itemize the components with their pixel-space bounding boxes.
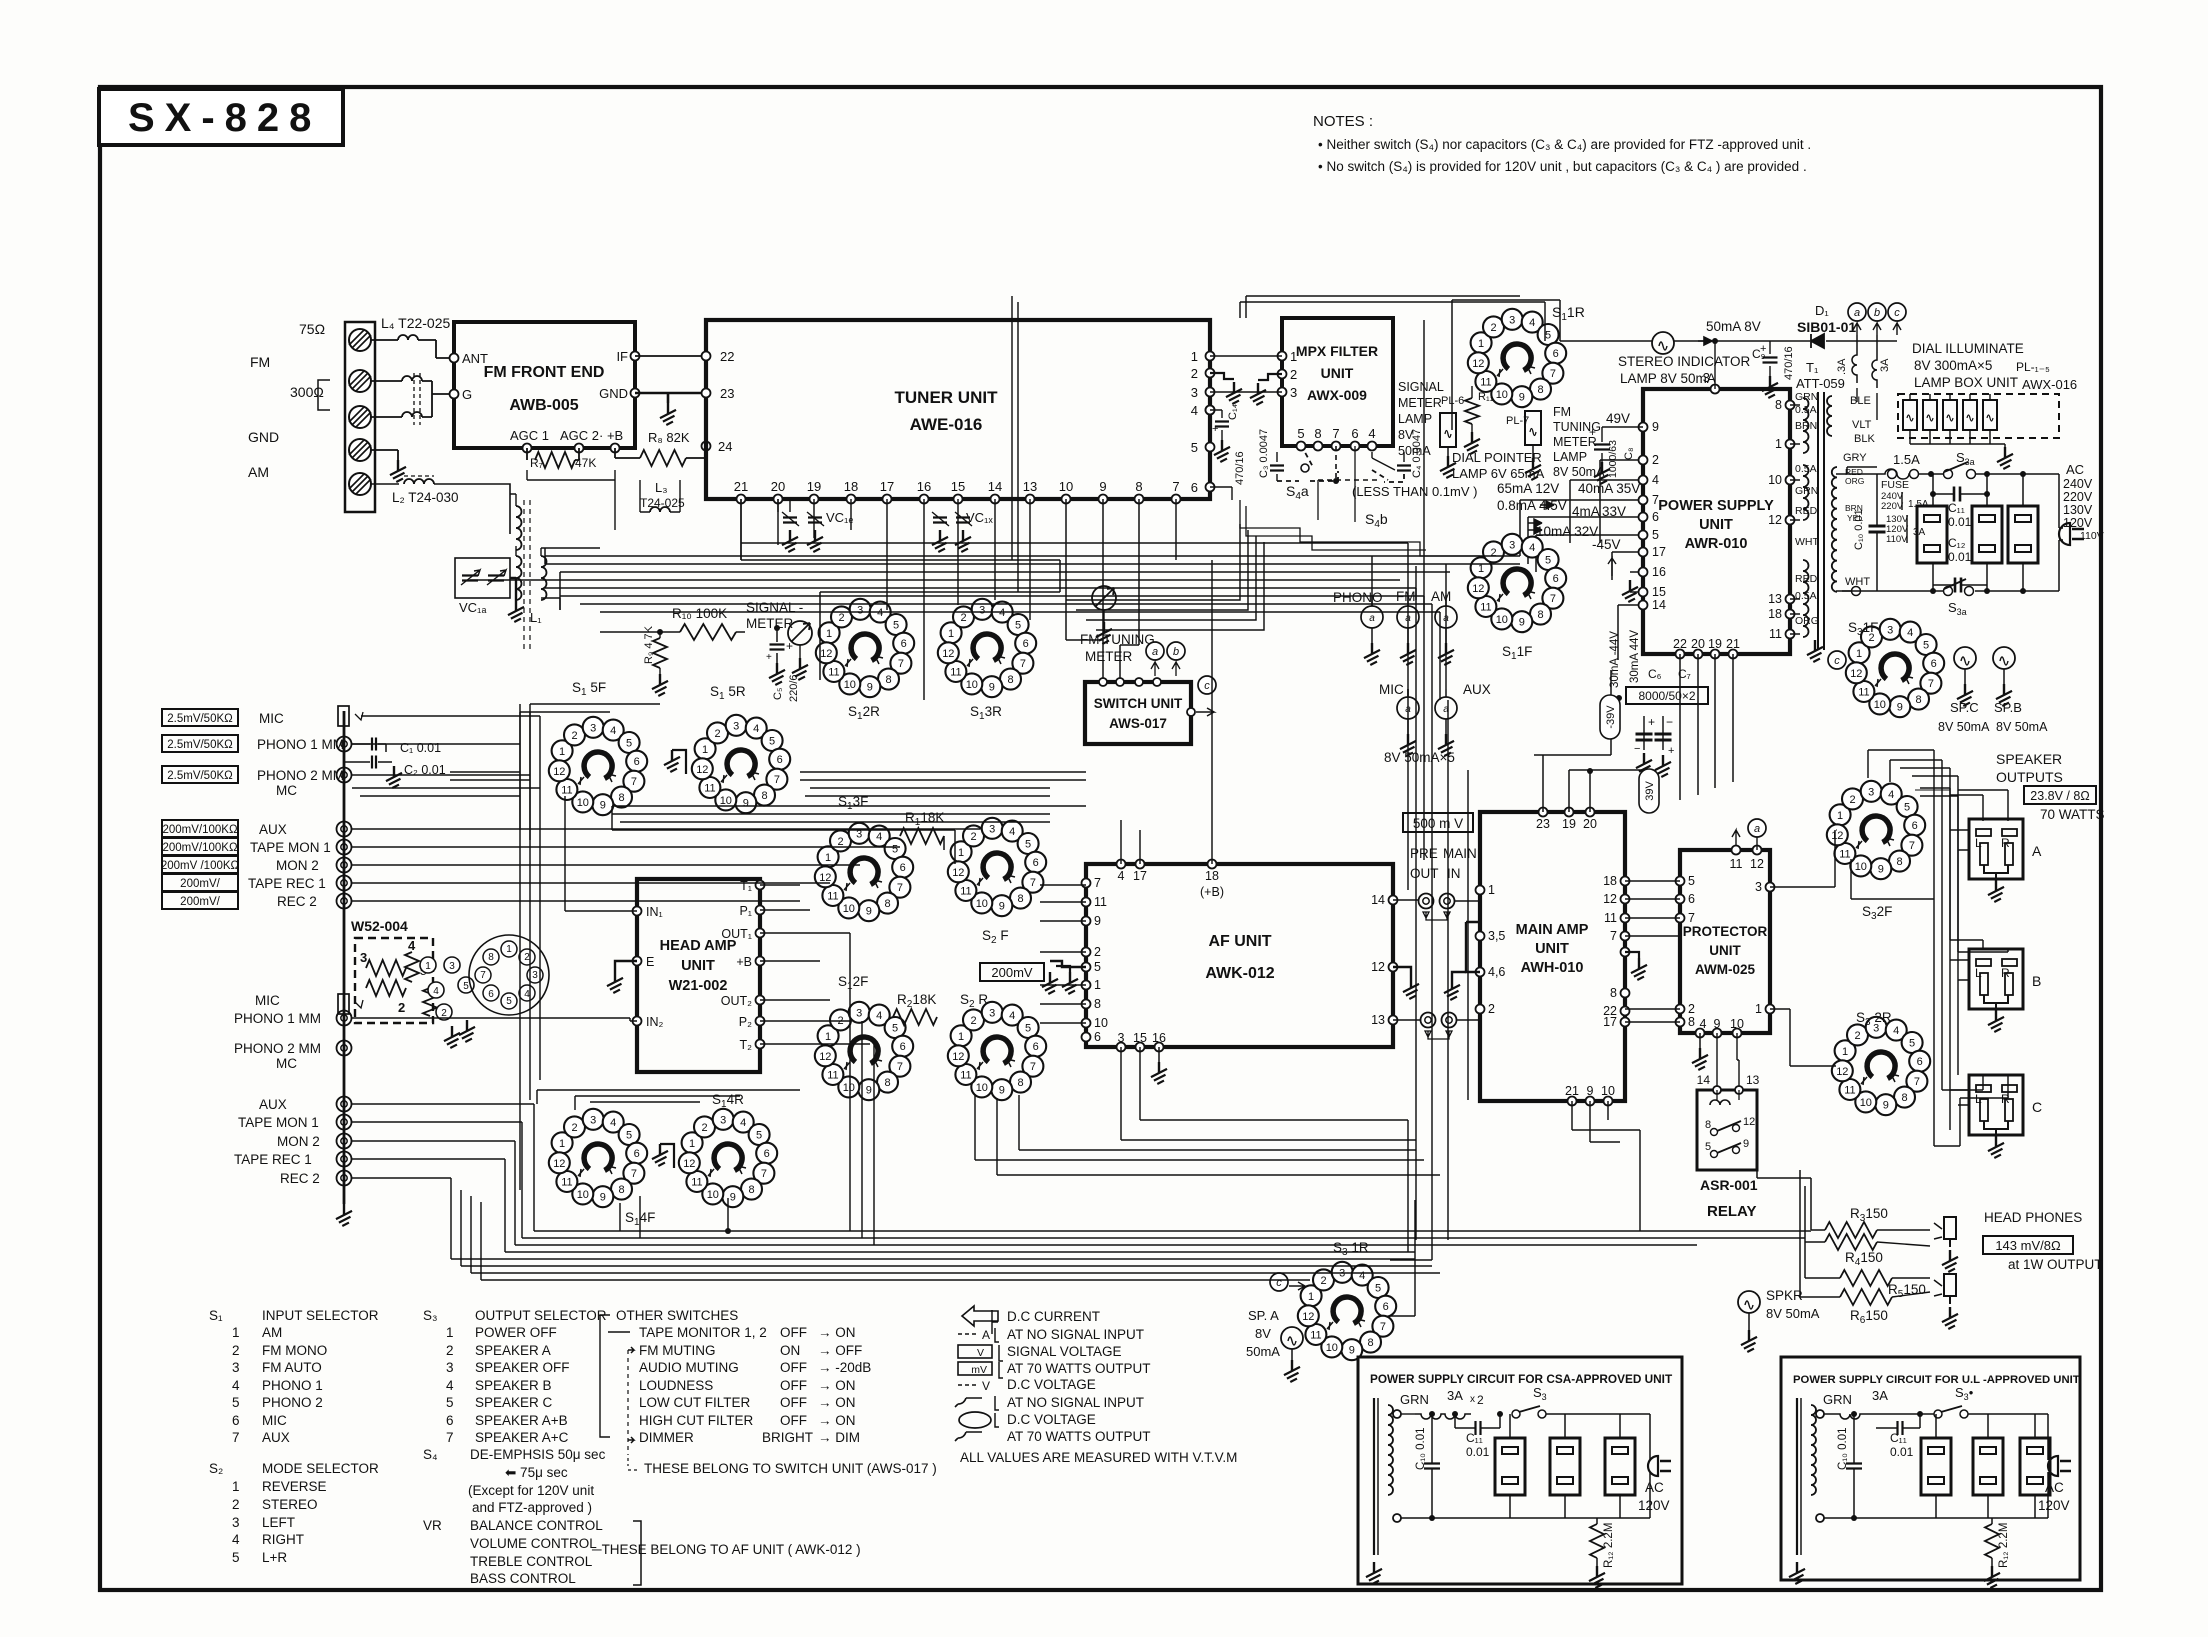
svg-text:SPEAKER C: SPEAKER C [475,1395,553,1410]
main amp pin 22 [1621,1007,1630,1016]
rotary switch S1 3R [938,599,1036,697]
antenna terminal screw [349,406,371,428]
MPX pin 3 [1278,388,1287,397]
svg-text:POWER SUPPLY CIRCUIT FOR CS: POWER SUPPLY CIRCUIT FOR CSA-APPROVED UN… [1370,1372,1673,1386]
svg-text:UNIT: UNIT [1699,517,1733,533]
svg-text:REVERSE: REVERSE [262,1479,327,1494]
svg-text:LAMP 6V 65mA: LAMP 6V 65mA [1452,466,1545,481]
svg-text:S₂: S₂ [209,1461,223,1476]
wire S1 1R box [1452,300,1560,430]
svg-text:AUX: AUX [262,1430,290,1445]
wire staircase under MPX [1066,524,1240,600]
input level box TAPE REC 1 [162,874,238,891]
input level box PHONO 1 MM [162,735,238,752]
svg-text:THESE BELONG TO SWITCH UNIT: THESE BELONG TO SWITCH UNIT (AWS-017 ) [644,1461,937,1476]
ac rail bottom [1836,590,2059,592]
svg-text:a: a [1754,823,1760,835]
svg-text:18: 18 [1205,869,1219,883]
svg-text:24: 24 [718,439,732,454]
wires protector to relay [1717,1033,1739,1086]
AF pin 17 [1136,860,1145,869]
legend icon boxed mV [958,1362,992,1375]
svg-text:AT NO SIGNAL INPUT: AT NO SIGNAL INPUT [1007,1395,1144,1410]
pre main jack [1442,1013,1457,1028]
AF pin 5 [1082,963,1091,972]
svg-text:c: c [1276,1277,1282,1289]
phono jack [337,1011,352,1026]
svg-text:11: 11 [1769,627,1782,641]
svg-text:b: b [1173,646,1179,658]
svg-text:SPEAKER: SPEAKER [1996,751,2062,767]
svg-text:18: 18 [1768,607,1782,621]
protector pin 1 [1766,1005,1775,1014]
svg-text:D.C VOLTAGE: D.C VOLTAGE [1007,1412,1096,1427]
wire vertical feeds AF top [1121,560,1212,864]
head amp pin E [633,957,642,966]
svg-text:110V: 110V [1886,534,1908,545]
wire head amp to switches [760,885,870,1044]
svg-text:-39V: -39V [1605,705,1617,729]
svg-text:3A: 3A [1879,358,1891,372]
wire AF14 to jacks [1393,900,1480,1020]
power supply unit AWR-010 [1643,389,1790,654]
pre main jack [1421,1013,1436,1028]
legend icon big arrow [962,1306,998,1326]
psu pin 1 [1786,440,1795,449]
terminal b [1868,303,1886,321]
svg-text:GRN: GRN [1795,391,1818,403]
main amp pin 11 [1621,914,1630,923]
svg-text:23: 23 [720,386,734,401]
phono jack [337,1041,352,1056]
svg-text:b: b [1874,307,1880,319]
svg-text:R₁₀ 100K: R₁₀ 100K [672,606,727,621]
svg-text:STEREO: STEREO [262,1497,318,1512]
lamp box unit dashed [1898,394,2059,438]
protector pin 8 [1676,1018,1685,1027]
svg-text:S₃: S₃ [423,1308,438,1323]
AF pin 13 [1389,1016,1398,1025]
svg-text:7: 7 [1610,929,1617,943]
svg-text:AF UNIT: AF UNIT [1208,933,1271,950]
relay ASR-001 [1697,1090,1757,1170]
svg-text:MC: MC [276,783,297,798]
svg-text:AUX: AUX [1463,682,1491,697]
svg-text:15: 15 [951,479,965,494]
svg-text:TAPE REC 1: TAPE REC 1 [248,876,326,891]
svg-text:.3A: .3A [1836,358,1848,375]
wire tuner pin3 to MPX pin3 [1210,391,1282,393]
pre main jack [1419,894,1434,909]
connector W52-004 dashed [355,938,433,1023]
svg-text:AGC 2· +B: AGC 2· +B [560,428,623,443]
svg-text:6: 6 [1688,892,1695,906]
svg-text:L₂ T24-030: L₂ T24-030 [392,490,459,505]
ground S1 4R [660,1144,674,1168]
terminal a [1848,303,1866,321]
MPX pin 1 [1278,352,1287,361]
phono jack [337,1152,352,1167]
svg-text:7: 7 [232,1430,240,1445]
svg-text:c: c [1834,655,1840,667]
wire tuner pin6 to staircase [1210,487,1232,500]
svg-text:200mV/100KΩ: 200mV/100KΩ [162,842,237,854]
svg-text:0.8mA 4.5V: 0.8mA 4.5V [1497,498,1567,513]
svg-text:AM: AM [248,464,269,480]
svg-text:C₈: C₈ [1623,447,1635,460]
svg-text:9: 9 [1094,914,1101,928]
round connector 8pin [469,935,549,1015]
svg-text:MODE SELECTOR: MODE SELECTOR [262,1461,379,1476]
svg-text:W21-002: W21-002 [669,978,728,994]
svg-text:RED: RED [1795,573,1818,585]
svg-text:a: a [1854,307,1860,319]
svg-text:4: 4 [232,1378,240,1393]
power supply circuit UL box [1781,1357,2080,1580]
svg-text:LAMP 8V 50mA: LAMP 8V 50mA [1620,371,1716,386]
svg-text:at 1W OUTPUT: at 1W OUTPUT [2008,1257,2103,1272]
protector unit AWM-025 [1680,850,1770,1033]
svg-text:a: a [1369,613,1375,624]
wires relay to resistors [1757,1170,1811,1297]
wires main amp to protector [1625,881,1680,1022]
svg-text:0.5A: 0.5A [1795,463,1817,475]
svg-text:22: 22 [1673,637,1687,651]
svg-text:1: 1 [1488,883,1495,897]
svg-text:200mV /100KΩ: 200mV /100KΩ [161,860,240,872]
svg-text:FM: FM [1553,405,1571,419]
legend icon boxed V [958,1345,992,1358]
svg-text:3: 3 [232,1360,240,1375]
svg-text:2: 2 [1191,366,1198,381]
svg-text:16: 16 [1652,565,1666,579]
CSA plugs [1495,1438,1525,1495]
wire AF bottom feeds [1121,1047,1416,1252]
svg-text:AM: AM [262,1325,282,1340]
svg-text:(LESS THAN 0.1mV ): (LESS THAN 0.1mV ) [1352,484,1477,499]
wire head amp outputs down [850,933,874,1245]
svg-text:C: C [2032,1099,2042,1115]
svg-text:4: 4 [232,1532,240,1547]
svg-text:C₁₂: C₁₂ [1948,536,1966,550]
phono jack [337,840,352,855]
svg-text:IN: IN [1447,866,1461,881]
svg-text:16: 16 [917,479,931,494]
svg-text:BLK: BLK [1854,433,1875,445]
svg-text:FM MONO: FM MONO [262,1343,327,1358]
svg-text:13: 13 [1746,1073,1760,1087]
svg-text:8: 8 [1314,426,1321,441]
svg-text:14: 14 [1697,1073,1711,1087]
legend icon curve 1 [955,1398,982,1407]
svg-text:4: 4 [408,938,416,953]
svg-text:9: 9 [1743,1138,1749,1150]
svg-text:2: 2 [232,1343,240,1358]
svg-text:2: 2 [446,1343,454,1358]
AF pin 10 [1082,1019,1091,1028]
wire bus under tuner [470,556,1520,580]
svg-text:22: 22 [720,349,734,364]
input level box MON 2 [162,856,238,873]
svg-text:T₂: T₂ [740,1038,753,1052]
svg-text:3: 3 [1755,880,1762,894]
svg-text:UNIT: UNIT [681,958,715,974]
main amp pin 7 [1621,932,1630,941]
svg-text:L₁: L₁ [530,610,542,625]
svg-text:AUX: AUX [259,1097,287,1112]
wire vertical bundle right of AF [1408,320,1468,1240]
svg-text:−: − [1634,743,1640,755]
svg-text:OFF: OFF [780,1395,807,1410]
legend icon curve 2 [955,1432,982,1441]
switch unit top pin [1116,678,1124,686]
svg-text:• No switch (S₄) is provid: • No switch (S₄) is provided for 120V un… [1318,159,1807,174]
svg-text:470/16: 470/16 [1234,451,1246,485]
svg-text:(+B): (+B) [1200,885,1224,899]
wire speaker feeds [1868,750,1958,1146]
svg-text:LOUDNESS: LOUDNESS [639,1378,713,1393]
svg-text:120V: 120V [2063,516,2093,530]
mic jack 2 [338,994,349,1014]
svg-text:MPX FILTER: MPX FILTER [1296,343,1378,359]
svg-text:0.5A: 0.5A [1795,590,1817,602]
svg-text:13: 13 [1023,479,1037,494]
svg-text:10: 10 [1730,1017,1744,1031]
input jack [1397,697,1419,719]
capacitor C14 470/16 [1206,406,1215,415]
ground head amp E [615,961,637,971]
ground VC1a [510,578,516,600]
svg-text:8V: 8V [1398,428,1414,442]
wire staircase S4b [1240,500,1480,556]
svg-text:2: 2 [232,1497,240,1512]
lamp box wires [1910,394,1990,400]
svg-text:E: E [646,955,654,969]
input level box TAPE MON 1 [162,838,238,855]
svg-text:NOTES :: NOTES : [1313,113,1373,130]
svg-text:BALANCE CONTROL: BALANCE CONTROL [470,1518,603,1533]
svg-text:S₁: S₁ [209,1308,223,1323]
svg-text:AWB-005: AWB-005 [509,397,578,414]
pre main jack [1440,894,1455,909]
svg-text:c: c [1204,680,1210,692]
legend icon dashed V [958,1384,978,1386]
headphone jack 1 [1934,1217,1956,1247]
svg-text:VC₁ₐ: VC₁ₐ [459,600,486,615]
MPX filter unit AWX-009 [1282,318,1393,446]
wire relay to S3 1R bundle [1390,1200,1432,1316]
svg-text:OUTPUT SELECTOR: OUTPUT SELECTOR [475,1308,607,1323]
svg-text:OFF: OFF [780,1325,807,1340]
svg-text:mV: mV [971,1364,987,1376]
svg-text:AWK-012: AWK-012 [1205,965,1274,982]
AF pin 14 [1389,896,1398,905]
wire stereo line to psu pin3 [1714,341,1716,389]
MPX pin 4 [1368,442,1377,451]
svg-text:14: 14 [1371,893,1385,907]
MPX pin 6 [1351,442,1360,451]
AF pin 8 [1082,1000,1091,1009]
svg-text:FUSE: FUSE [1881,479,1909,491]
svg-text:200mV/: 200mV/ [180,896,220,908]
svg-text:TUNER UNIT: TUNER UNIT [895,388,999,407]
svg-text:POWER SUPPLY: POWER SUPPLY [1658,498,1774,514]
svg-text:A: A [982,1328,990,1342]
svg-text:+: + [786,639,793,653]
svg-text:C₃ 0.0047: C₃ 0.0047 [1258,429,1270,478]
phono jack [337,822,352,837]
AF pin 6 [1082,1033,1091,1042]
svg-text:6: 6 [488,989,494,1000]
tuner pin 21 [737,495,746,504]
svg-text:0.01: 0.01 [1948,550,1972,564]
svg-text:21: 21 [734,479,748,494]
svg-text:SP.C: SP.C [1950,700,1979,715]
svg-text:5: 5 [1297,426,1304,441]
wire S2R bottom drops [975,1095,1440,1175]
svg-text:V: V [977,1347,984,1359]
rotary switch S1 2R [816,599,914,697]
arrow -44V [1608,558,1616,576]
bracket VR [633,1521,641,1585]
svg-text:POWER OFF: POWER OFF [475,1325,557,1340]
terminal a small [1146,642,1164,660]
input jack [1361,606,1383,628]
svg-text:SX-828: SX-828 [128,96,321,140]
wire L1 [510,494,600,610]
svg-text:5: 5 [463,981,469,992]
svg-text:8V 50mA: 8V 50mA [1996,720,2048,734]
svg-text:4: 4 [1368,426,1375,441]
svg-text:5: 5 [232,1395,240,1410]
svg-text:RED: RED [1795,505,1818,517]
svg-text:220V: 220V [1881,501,1904,512]
main amp pin 3,5 [1476,932,1485,941]
head amp pin P&#8322; [756,1017,765,1026]
tuner pin 5 [1206,443,1215,452]
psu pin 21 [1729,650,1738,659]
svg-text:PHONO 2: PHONO 2 [262,1395,323,1410]
ground speaker B [1988,1010,2008,1033]
antenna terminal screw [349,439,371,461]
main amp pin 4,6 [1476,968,1485,977]
svg-text:5: 5 [506,996,512,1007]
svg-text:20: 20 [1691,637,1705,651]
svg-text:1.5A: 1.5A [1893,452,1920,467]
svg-text:VC₁ₓ: VC₁ₓ [966,510,993,525]
svg-text:METER: METER [1085,649,1133,664]
svg-text:3: 3 [1118,1031,1125,1045]
svg-text:8: 8 [1135,479,1142,494]
svg-text:TAPE MON 1: TAPE MON 1 [250,840,331,855]
main amp pin 8 [1621,989,1630,998]
input ground bus [343,711,346,1204]
legend icon oval [959,1412,991,1428]
rotary switch S3 2F [1827,781,1925,879]
transformer core [1818,392,1824,650]
wire GND to tuner pin 23 with ground [635,393,706,403]
svg-text:MON 2: MON 2 [276,858,319,873]
head amp pin IN&#8322; [633,1017,642,1026]
ground near 200mV [1056,966,1070,972]
svg-text:MON 2: MON 2 [277,1134,320,1149]
svg-text:L₄ T22-025: L₄ T22-025 [381,315,450,331]
AF pin 2 [1082,948,1091,957]
svg-text:5: 5 [446,1395,454,1410]
svg-text:T₁: T₁ [1806,360,1819,375]
rotary switch S1 3F [815,823,913,921]
svg-text:MC: MC [276,1056,297,1071]
wire GND terminal [371,450,398,460]
phono jack [337,858,352,873]
wire IF to tuner pin 22 [635,355,706,357]
svg-text:110V: 110V [2080,530,2104,542]
legend icon dashed A [958,1333,978,1335]
terminal a circle [1748,819,1766,837]
svg-text:LAMP: LAMP [1398,412,1432,426]
svg-text:AGC 1: AGC 1 [510,428,549,443]
svg-text:PHONO: PHONO [1333,590,1383,605]
protector pin 9 [1713,1029,1722,1038]
svg-text:UNIT: UNIT [1709,943,1741,958]
phono jack [337,768,352,783]
ground speaker A [1988,880,2008,903]
svg-text:21: 21 [1565,1084,1579,1098]
svg-text:18: 18 [1603,874,1617,888]
svg-text:OUT₂: OUT₂ [721,994,752,1008]
phono jack [337,1134,352,1149]
svg-text:49V: 49V [1606,411,1630,426]
input jack [1435,606,1457,628]
head amp unit W21-002 [637,879,760,1072]
main amp pin 10 [1604,1097,1613,1106]
svg-text:16: 16 [1152,1031,1166,1045]
phono jack [337,876,352,891]
svg-text:5: 5 [1094,960,1101,974]
psu pin 14 [1639,601,1648,610]
svg-text:12: 12 [1371,960,1385,974]
svg-text:3,5: 3,5 [1488,929,1505,943]
tuner pin 16 [920,495,929,504]
wire box around S1 2R 3R [741,499,1060,680]
terminal b small [1167,642,1185,660]
svg-text:TREBLE CONTROL: TREBLE CONTROL [470,1554,593,1569]
UL transformer [1796,1398,1798,1555]
svg-text:BASS CONTROL: BASS CONTROL [470,1571,576,1586]
svg-text:30mA 44V: 30mA 44V [1629,630,1641,683]
wire S2F to AF [1040,885,1086,1023]
main amp pin 20 [1586,808,1595,817]
MPX pin 8 [1314,442,1323,451]
svg-text:PHONO 1 MM: PHONO 1 MM [257,737,344,752]
AF pin 3 [1117,1043,1126,1052]
svg-text:A: A [2032,843,2042,859]
svg-text:8: 8 [488,952,494,963]
svg-text:TAPE MON 1: TAPE MON 1 [238,1115,319,1130]
svg-text:4,6: 4,6 [1488,965,1505,979]
svg-text:C₆: C₆ [1648,667,1662,681]
svg-text:18: 18 [844,479,858,494]
svg-text:OFF: OFF [780,1413,807,1428]
psu pin 16 [1639,568,1648,577]
svg-text:L+R: L+R [262,1550,287,1565]
rotary switch S3 1F [1846,619,1944,717]
svg-text:10: 10 [1094,1016,1108,1030]
mic jack 1 [338,706,349,726]
ground antenna [390,460,410,483]
switch unit top pin [1135,678,1143,686]
protector pin 6 [1676,895,1685,904]
